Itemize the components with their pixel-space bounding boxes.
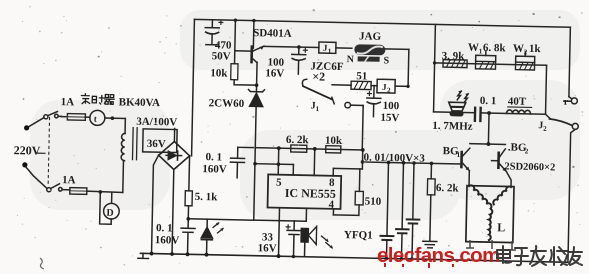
svg-text:YFQ1: YFQ1 <box>344 229 373 242</box>
svg-text:0. 1: 0. 1 <box>156 222 173 234</box>
svg-text:L: L <box>497 220 505 234</box>
svg-text:2CW60: 2CW60 <box>209 97 245 110</box>
svg-text:100: 100 <box>383 100 400 112</box>
svg-text:1: 1 <box>316 105 320 113</box>
svg-text:15V: 15V <box>380 112 399 124</box>
svg-text:0. 1: 0. 1 <box>205 151 222 163</box>
svg-text:160V: 160V <box>202 163 227 176</box>
svg-text:51: 51 <box>356 70 367 82</box>
svg-text:×2: ×2 <box>312 69 325 83</box>
svg-text:16V: 16V <box>258 242 277 254</box>
svg-text:160V: 160V <box>155 234 180 247</box>
svg-text:5. 1k: 5. 1k <box>195 191 219 203</box>
svg-text:elecfans.com: elecfans.com <box>377 244 500 267</box>
